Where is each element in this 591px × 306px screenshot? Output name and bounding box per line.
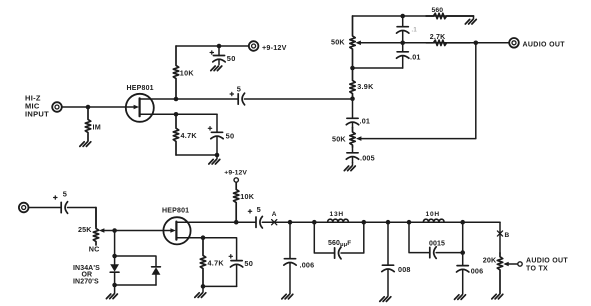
svg-text:AUDIO OUT: AUDIO OUT	[523, 41, 566, 48]
wire wiper to Q2 gate	[102, 230, 171, 232]
svg-text:4.7K: 4.7K	[181, 131, 198, 140]
junction output node	[474, 41, 479, 46]
svg-text:.005: .005	[360, 153, 375, 162]
svg-text:10K: 10K	[180, 69, 195, 78]
wire main line A to B	[290, 221, 500, 223]
capacitor C3 50	[208, 114, 234, 155]
wire drain to C1	[176, 98, 238, 100]
svg-text:.006: .006	[300, 260, 315, 269]
resistor R9 25K pot	[78, 208, 99, 246]
junction bottom rail/ground	[215, 153, 220, 158]
terminal J2 input	[19, 203, 29, 213]
svg-text:.01: .01	[360, 116, 371, 125]
svg-text:50K: 50K	[331, 38, 345, 47]
label 1N34A'S OR 1N270'S	[73, 265, 100, 286]
wiper arrow R8	[356, 136, 361, 141]
wire source bottom rail	[176, 154, 217, 156]
diode D1 1N34A	[110, 256, 119, 285]
junction rail/C4	[400, 14, 405, 19]
terminal J1 mic input	[52, 102, 62, 112]
node B	[497, 222, 509, 253]
wiper arrow R9	[99, 228, 104, 233]
ground diodes	[106, 285, 117, 299]
svg-text:INPUT: INPUT	[25, 110, 49, 119]
svg-text:50K: 50K	[332, 134, 346, 143]
wire wiper line to output	[358, 42, 509, 44]
wiper arrow R12	[503, 262, 508, 267]
label NC	[89, 245, 100, 254]
wire Q1 drain lead	[140, 98, 176, 100]
resistor R3 4.7K	[173, 114, 197, 155]
capacitor C15 .006	[457, 222, 484, 294]
capacitor C5 .01	[397, 43, 421, 68]
junction C13	[386, 220, 391, 225]
capacitor C4 .1	[397, 16, 418, 43]
junction rail/C2	[217, 44, 222, 49]
svg-text:008: 008	[398, 265, 411, 274]
diode D2 1N34A	[152, 267, 161, 285]
junction L1 right	[362, 220, 367, 225]
wire C8 to R9	[68, 208, 97, 228]
capacitor C2 50	[210, 46, 236, 65]
resistor R7 2.7K	[426, 34, 470, 46]
junction diode bottom	[112, 283, 117, 288]
wire C1 to divider node	[244, 98, 352, 100]
capacitor C13 .008	[382, 222, 411, 296]
wire Q2 drain lead	[176, 221, 255, 223]
label HEP801 (Q1)	[127, 85, 154, 92]
resistor R5 50K pot	[331, 16, 355, 68]
junction gate/diode branch	[112, 228, 117, 233]
label HEP801 (Q2)	[162, 208, 189, 215]
transistor Q1 HEP801	[126, 94, 154, 122]
capacitor C12 560uuF	[314, 222, 364, 259]
junction L1 left	[312, 220, 317, 225]
wire +V rail	[176, 45, 249, 47]
svg-text:4.7K: 4.7K	[208, 258, 225, 267]
ground R12	[492, 294, 503, 299]
capacitor C14 .0015	[409, 222, 463, 258]
ground R1	[80, 142, 91, 147]
svg-text:5: 5	[237, 85, 241, 94]
junction source ground (Q2)	[201, 284, 206, 289]
terminal +9-12V (bottom)	[234, 178, 238, 182]
svg-text:50: 50	[244, 259, 253, 268]
svg-text:TO TX: TO TX	[526, 265, 548, 272]
svg-text:IN270'S: IN270'S	[73, 279, 99, 286]
terminal +9-12V (top)	[249, 41, 259, 51]
junction L2 left	[407, 220, 412, 225]
capacitor C8 5	[54, 190, 68, 214]
wire diode bottom rail	[115, 284, 156, 286]
capacitor C11 .006	[284, 222, 314, 293]
junction drain/R2	[174, 97, 179, 102]
wire feedback from R8 wiper	[359, 43, 476, 139]
junction C4/wiper line	[400, 41, 405, 46]
svg-text:5: 5	[63, 190, 67, 199]
resistor R1 1M	[85, 107, 101, 141]
wire Q2 source lead	[176, 237, 203, 239]
wire Q1 source lead	[140, 113, 176, 115]
resistor R10 10K	[234, 182, 255, 222]
svg-text:B: B	[505, 232, 510, 239]
junction divider node	[350, 96, 355, 101]
wire source bottom rail (Q2)	[203, 285, 237, 287]
junction source/R11	[201, 235, 206, 240]
capacitor C1 5	[230, 85, 245, 105]
label HI-Z MIC INPUT	[25, 94, 49, 119]
junction input/R1	[86, 105, 91, 110]
svg-text:+9-12V: +9-12V	[262, 43, 287, 52]
svg-text:AUDIO OUT: AUDIO OUT	[526, 258, 568, 265]
svg-text:0015: 0015	[429, 241, 445, 248]
resistor R8 50K pot	[332, 127, 355, 147]
svg-text:HEP801: HEP801	[162, 208, 189, 215]
ground C15	[455, 295, 466, 300]
capacitor C10 50	[229, 255, 253, 287]
svg-text:.1: .1	[412, 28, 418, 34]
label +9-12V (top)	[262, 43, 287, 52]
svg-text:20K: 20K	[483, 256, 497, 265]
resistor R4 3.9K	[350, 68, 374, 99]
svg-text:.01: .01	[410, 53, 421, 62]
svg-text:IM: IM	[93, 123, 102, 132]
svg-text:A: A	[272, 211, 277, 218]
svg-text:50: 50	[227, 54, 236, 63]
ground divider chain	[344, 163, 355, 171]
capacitor C9 5	[248, 205, 262, 228]
ground C2	[211, 66, 222, 71]
wire wiper to TX terminal	[506, 263, 518, 265]
wire source rail (Q2)	[203, 238, 237, 261]
inductor L1 13H	[314, 211, 364, 222]
svg-text:13H: 13H	[330, 211, 345, 218]
label AUDIO OUT (top)	[523, 41, 566, 48]
node A	[272, 211, 277, 225]
terminal AUDIO OUT	[509, 38, 519, 48]
svg-text:HEP801: HEP801	[127, 85, 154, 92]
svg-text:560μμF: 560μμF	[328, 240, 351, 248]
svg-text:3.9K: 3.9K	[357, 82, 374, 91]
resistor R2 10K	[173, 46, 194, 99]
resistor R6 560	[426, 7, 474, 19]
resistor R12 20K pot	[483, 253, 503, 294]
resistor R11 4.7K	[200, 238, 224, 287]
svg-text:50: 50	[226, 131, 235, 140]
wire top rail	[353, 15, 474, 17]
svg-text:2.7K: 2.7K	[430, 34, 446, 41]
wire C5 return	[353, 67, 403, 69]
label AUDIO OUT TO TX	[526, 258, 568, 273]
wiper arrow R5	[356, 41, 361, 46]
wire input to Q1 gate	[62, 106, 134, 108]
capacitor C6 .01	[346, 99, 370, 128]
junction C11	[288, 220, 293, 225]
label +9-12V (bottom)	[224, 169, 247, 176]
junction diode top	[112, 254, 117, 259]
junction source/R3	[174, 112, 179, 117]
junction R4/C5 loop	[350, 66, 355, 71]
ground C11	[282, 294, 293, 299]
wire C9 to node A	[262, 221, 290, 223]
transistor Q2 HEP801	[163, 217, 190, 244]
svg-text:5: 5	[257, 205, 261, 214]
ground source network	[209, 155, 220, 164]
junction L2 right	[460, 220, 465, 225]
svg-text:NC: NC	[89, 245, 100, 254]
svg-text:560: 560	[432, 7, 444, 14]
wire diode top rail	[115, 256, 156, 266]
ground C13	[380, 297, 391, 302]
terminal audio out to TX	[518, 262, 522, 266]
ground source network (Q2)	[195, 286, 206, 297]
junction C14/C15	[460, 250, 465, 255]
wire diode branch	[114, 231, 116, 257]
svg-text:006: 006	[471, 267, 484, 276]
svg-text:OR: OR	[82, 272, 93, 279]
wire source rail	[176, 113, 217, 115]
junction drain/R10	[234, 220, 239, 225]
wire J2 to C8	[29, 207, 62, 209]
capacitor C7 .005	[346, 147, 374, 163]
ground R6	[465, 16, 476, 24]
svg-text:25K: 25K	[78, 225, 92, 234]
inductor L2 10H	[409, 211, 463, 222]
svg-text:10K: 10K	[240, 192, 255, 201]
svg-text:10H: 10H	[426, 211, 441, 218]
svg-text:+9-12V: +9-12V	[224, 169, 247, 176]
